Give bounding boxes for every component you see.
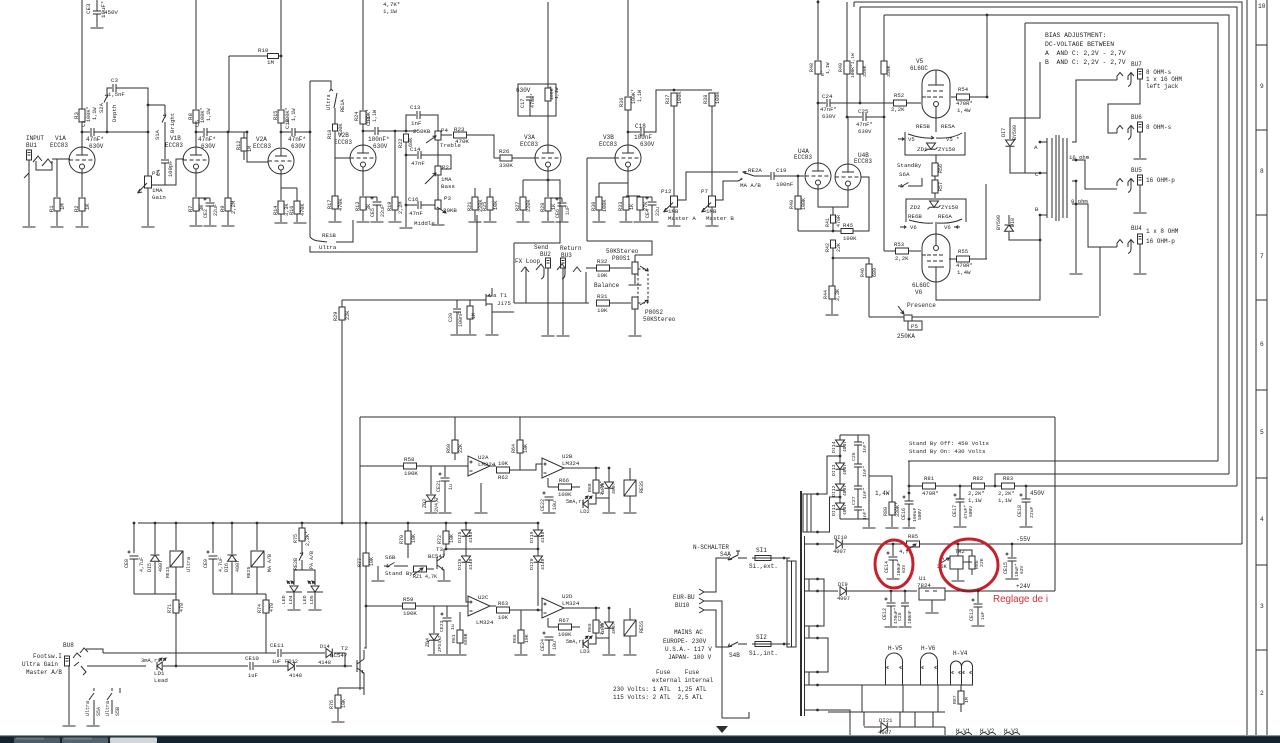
wire C11 out	[378, 130, 417, 132]
wire	[589, 492, 596, 504]
wire C18 up to masters	[644, 90, 674, 132]
wire	[406, 204, 417, 206]
resistor R66	[559, 484, 572, 490]
capacitor C25	[863, 113, 866, 121]
svg-text:330K: 330K	[862, 65, 868, 77]
wire	[959, 502, 961, 526]
wire R23 to R26	[467, 135, 494, 158]
junction	[154, 522, 157, 525]
svg-text:680R: 680R	[463, 633, 469, 645]
wire	[628, 131, 640, 133]
ground	[706, 225, 719, 227]
svg-text:1,1W: 1,1W	[998, 497, 1012, 504]
svg-text:SI1: SI1	[756, 547, 767, 554]
svg-text:ZY150: ZY150	[938, 146, 956, 153]
svg-text:1nF*: 1nF*	[862, 441, 868, 453]
wire	[96, 0, 98, 11]
wire	[859, 74, 861, 103]
svg-text:4148: 4148	[318, 660, 331, 666]
svg-text:1,4W: 1,4W	[957, 107, 971, 114]
resistor R71	[173, 600, 179, 613]
wire	[585, 272, 587, 303]
svg-text:V5 *: V5 *	[946, 136, 959, 143]
potentiometer P3 middle	[435, 200, 441, 209]
svg-text:100K: 100K	[404, 470, 418, 477]
svg-text:R83: R83	[1003, 475, 1013, 482]
capacitor CE4	[646, 197, 657, 206]
svg-text:47nF*: 47nF*	[820, 106, 837, 113]
wire jack sleeve	[24, 160, 29, 178]
svg-text:R41: R41	[825, 218, 831, 227]
svg-text:R31: R31	[597, 293, 608, 300]
svg-text:630V: 630V	[89, 143, 104, 150]
ground	[624, 654, 637, 656]
resistor R3	[79, 109, 85, 122]
resistor R16	[294, 201, 300, 214]
wire	[1075, 218, 1077, 273]
resistor R57	[932, 180, 938, 193]
ground	[926, 612, 939, 614]
ground	[357, 221, 370, 223]
wire	[904, 606, 906, 626]
wire	[890, 591, 892, 602]
wire	[860, 6, 866, 8]
svg-text:Send: Send	[534, 244, 549, 251]
svg-text:470R*: 470R*	[956, 100, 973, 107]
power tube V6 6L6GC	[922, 234, 950, 282]
junction	[341, 522, 344, 525]
ground	[475, 512, 488, 514]
wire	[627, 110, 629, 145]
svg-text:CE3: CE3	[85, 3, 92, 14]
capacitor CE3	[93, 11, 101, 14]
capacitor C3	[113, 84, 116, 92]
transistor T3 BC547	[437, 556, 444, 570]
svg-text:Ultra: Ultra	[326, 94, 332, 110]
svg-text:R66: R66	[559, 477, 569, 484]
resistor R63	[497, 607, 510, 613]
wire	[892, 560, 894, 578]
capacitor CE18	[1020, 494, 1031, 503]
wire	[405, 205, 407, 227]
wire	[513, 243, 515, 303]
svg-text:1,1W: 1,1W	[291, 108, 297, 121]
op-amp U2D LM324	[542, 598, 564, 618]
wire	[213, 593, 266, 595]
wire	[957, 544, 959, 556]
svg-text:C29: C29	[897, 612, 903, 621]
wire	[945, 590, 1055, 592]
ground	[1020, 526, 1033, 528]
wire V5 cathode	[935, 118, 937, 132]
wire	[514, 302, 586, 304]
junction	[908, 518, 911, 521]
heater H-V1 coil	[956, 733, 972, 737]
wire	[466, 563, 471, 602]
svg-text:100K: 100K	[602, 199, 608, 212]
wire	[798, 230, 841, 232]
wire	[857, 435, 859, 442]
svg-text:C10: C10	[284, 118, 291, 129]
wire	[832, 248, 834, 258]
wire	[489, 210, 491, 221]
capacitor CE22	[543, 492, 554, 501]
capacitor C18	[641, 128, 644, 136]
svg-text:1nF*: 1nF*	[862, 465, 868, 477]
svg-text:63V: 63V	[1019, 565, 1025, 574]
transformer primary winding	[787, 561, 796, 647]
junction	[405, 204, 408, 207]
resistor R81	[923, 483, 936, 489]
svg-text:C27: C27	[851, 496, 857, 505]
svg-text:RE25: RE25	[246, 566, 252, 578]
capacitor CE11	[278, 649, 281, 657]
svg-text:630V: 630V	[291, 143, 306, 150]
capacitor CE15	[1006, 553, 1017, 562]
wire	[406, 154, 417, 156]
wire	[970, 258, 987, 260]
resistor R12	[241, 138, 247, 151]
wire	[547, 84, 549, 88]
transformer tap	[816, 590, 819, 593]
wire	[866, 116, 884, 118]
junction	[977, 590, 980, 593]
svg-text:R58: R58	[404, 456, 415, 463]
wire	[209, 198, 211, 202]
wire	[548, 197, 562, 199]
wire	[869, 316, 904, 318]
resistor R74	[263, 600, 269, 613]
wire P12 wiper	[677, 172, 738, 200]
wire	[537, 523, 539, 530]
capacitor C26	[854, 464, 862, 467]
resistor R34	[637, 197, 643, 210]
junction	[362, 130, 365, 133]
wire cathode V1B	[195, 169, 197, 197]
wire	[861, 685, 863, 712]
red circle 1	[875, 540, 913, 588]
svg-text:Lead: Lead	[154, 677, 168, 684]
capacitor C16	[418, 201, 421, 209]
wire	[295, 131, 310, 133]
svg-text:22K: 22K	[345, 310, 351, 320]
junction	[1075, 203, 1078, 206]
wire	[610, 302, 631, 304]
svg-text:2,2K*: 2,2K*	[305, 531, 311, 546]
svg-text:100nF: 100nF	[907, 610, 913, 624]
svg-text:MA A/B: MA A/B	[740, 182, 761, 189]
wire R9	[227, 132, 229, 198]
svg-text:V1A: V1A	[55, 135, 66, 142]
jack switch contact BU1	[33, 156, 52, 166]
svg-text:DI11: DI11	[831, 504, 837, 516]
wire	[572, 486, 580, 488]
svg-text:470K: 470K	[300, 203, 306, 216]
wire P4 to P2	[437, 140, 439, 166]
wire	[564, 607, 600, 609]
wire	[547, 211, 549, 221]
svg-text:C20: C20	[448, 313, 454, 322]
junction	[608, 467, 611, 470]
ground	[275, 222, 288, 224]
triode V1B ECC83	[183, 147, 209, 173]
svg-text:C26: C26	[851, 452, 857, 461]
wire anode to C1	[82, 131, 90, 133]
wire	[857, 445, 859, 464]
svg-text:LD4: LD4	[288, 595, 294, 604]
ground	[190, 225, 203, 227]
wire	[818, 102, 826, 104]
resistor R48	[815, 61, 821, 74]
resistor R69	[593, 620, 599, 633]
box right	[1054, 417, 1056, 591]
wire	[1072, 181, 1076, 218]
svg-text:4007: 4007	[842, 464, 848, 475]
wire	[839, 470, 841, 484]
svg-text:R56: R56	[938, 164, 944, 173]
svg-text:1 x 8 OHM: 1 x 8 OHM	[1146, 228, 1179, 235]
svg-text:RE5B: RE5B	[916, 123, 930, 130]
wire	[195, 211, 197, 225]
svg-text:LD5: LD5	[309, 595, 315, 604]
svg-text:R15: R15	[273, 111, 279, 120]
wire	[87, 665, 146, 667]
svg-text:220K: 220K	[526, 199, 532, 212]
svg-text:630V: 630V	[516, 87, 531, 94]
svg-text:U2B: U2B	[562, 453, 573, 460]
svg-text:BU4: BU4	[1131, 225, 1142, 232]
wire	[421, 155, 451, 169]
wire V6 anode riser	[985, 184, 987, 259]
triode V1A ECC83	[69, 147, 95, 173]
wire left heater drop	[849, 712, 851, 743]
wire	[971, 569, 973, 575]
resistor R54	[957, 94, 970, 100]
svg-text:5mA,r1: 5mA,r1	[566, 499, 585, 505]
wire	[459, 612, 461, 630]
wire	[444, 481, 446, 512]
junction	[537, 548, 540, 551]
svg-text:A AND C: 2,2V - 2,7V: A AND C: 2,2V - 2,7V	[1045, 50, 1126, 57]
wire	[229, 55, 268, 57]
resistor R87	[958, 691, 964, 704]
svg-text:DI14: DI14	[831, 441, 837, 453]
wire	[587, 241, 652, 255]
wire	[704, 610, 728, 647]
wire secondary link a	[818, 579, 825, 626]
junction	[908, 492, 911, 495]
ground	[91, 27, 104, 29]
diode DI8	[1005, 225, 1014, 231]
wire	[907, 102, 921, 104]
svg-text:P12: P12	[661, 188, 672, 195]
diode DI18	[605, 622, 614, 628]
wire	[334, 209, 336, 221]
svg-text:470R*: 470R*	[922, 490, 939, 497]
svg-text:V3A: V3A	[524, 134, 535, 141]
ground	[624, 512, 637, 514]
svg-text:Ultra: Ultra	[319, 244, 337, 251]
svg-text:V5: V5	[908, 136, 915, 143]
junction	[1025, 485, 1028, 488]
svg-text:Fuse Fuse: Fuse Fuse	[656, 669, 700, 676]
potentiometer P5	[904, 315, 912, 321]
wire	[427, 568, 434, 570]
svg-text:V6: V6	[915, 289, 923, 296]
svg-text:MA A/B: MA A/B	[267, 554, 273, 572]
svg-text:100K: 100K	[843, 235, 857, 242]
taskbar	[0, 736, 1280, 743]
svg-text:R24: R24	[354, 112, 360, 121]
svg-text:470R: 470R	[836, 215, 842, 227]
transformer core	[800, 491, 802, 716]
wire	[154, 562, 156, 594]
wire	[818, 543, 835, 545]
svg-text:2,2M: 2,2M	[398, 202, 404, 214]
svg-text:R61: R61	[451, 634, 457, 643]
wire	[586, 267, 597, 269]
junction	[344, 665, 347, 668]
svg-text:ECC83: ECC83	[599, 141, 617, 148]
node A	[1039, 141, 1042, 144]
svg-text:4007: 4007	[235, 560, 241, 572]
zener ZD1	[925, 143, 938, 151]
svg-text:R65: R65	[512, 634, 518, 643]
svg-text:R68: R68	[587, 483, 593, 492]
ground	[634, 221, 647, 223]
svg-text:1uF: 1uF	[272, 659, 281, 665]
diode DI16	[605, 482, 614, 488]
ground	[629, 335, 642, 337]
svg-text:1M: 1M	[247, 146, 253, 152]
wire	[407, 544, 409, 558]
wire bias rail -55V	[854, 2, 1242, 544]
ground	[903, 527, 916, 529]
resistor R27	[520, 197, 526, 210]
wire	[490, 465, 496, 467]
wire cathode V2A	[280, 170, 282, 200]
svg-text:R13: R13	[355, 202, 361, 211]
wire	[857, 467, 859, 486]
relay contact RE1B	[310, 237, 327, 242]
wire	[519, 453, 521, 470]
wire	[608, 489, 610, 498]
ground	[454, 654, 467, 656]
wire	[107, 88, 112, 92]
switch S5A	[89, 688, 94, 725]
svg-text:470K: 470K	[455, 138, 469, 145]
svg-text:8 OHM-s: 8 OHM-s	[1146, 69, 1172, 76]
svg-text:RE1B: RE1B	[322, 232, 336, 239]
wire	[254, 665, 288, 667]
svg-text:RE2A: RE2A	[748, 167, 762, 174]
svg-text:330K: 330K	[886, 65, 892, 77]
svg-text:LD1: LD1	[154, 670, 165, 677]
svg-text:Bass: Bass	[441, 183, 455, 190]
wire	[469, 319, 471, 334]
svg-text:ECC83: ECC83	[854, 158, 872, 165]
svg-text:10K: 10K	[597, 307, 608, 314]
relay RE3 coil	[624, 480, 636, 496]
svg-text:Ultra: Ultra	[85, 701, 91, 716]
svg-text:EUR-BU: EUR-BU	[673, 594, 695, 601]
wire	[839, 435, 841, 440]
svg-text:BIAS ADJUSTMENT:: BIAS ADJUSTMENT:	[1045, 32, 1106, 39]
wire	[651, 205, 653, 221]
wire	[456, 312, 458, 334]
relay box RE6	[906, 199, 966, 222]
svg-text:R21: R21	[467, 202, 473, 211]
svg-text:Return: Return	[560, 245, 582, 252]
jack contact BU4	[1117, 240, 1134, 254]
ground	[329, 221, 342, 223]
triode V3B ECC83	[615, 145, 641, 171]
svg-text:8 OHM-s: 8 OHM-s	[1146, 124, 1172, 131]
heater H-V2 coil	[980, 733, 996, 737]
svg-text:1,1W: 1,1W	[968, 497, 982, 504]
resistor R72	[443, 531, 449, 544]
wire	[818, 590, 839, 592]
wire	[883, 15, 885, 61]
svg-text:6: 6	[1260, 341, 1264, 348]
ground	[899, 626, 912, 628]
ground	[309, 609, 322, 611]
jack BU5	[1138, 175, 1143, 185]
diode DI10	[836, 540, 842, 549]
supply box V3A	[518, 84, 556, 116]
ground	[593, 221, 606, 223]
svg-text:R12: R12	[236, 141, 242, 150]
wire	[212, 523, 214, 553]
svg-text:C1: C1	[80, 120, 87, 127]
svg-text:DI16: DI16	[600, 482, 606, 494]
ground	[1070, 273, 1083, 275]
svg-text:P7: P7	[701, 188, 708, 195]
wire	[195, 123, 197, 147]
wire	[281, 131, 291, 133]
wire	[529, 100, 531, 116]
svg-text:470R*: 470R*	[956, 262, 973, 269]
svg-text:1nF*: 1nF*	[862, 508, 868, 520]
wire	[868, 435, 870, 527]
red circle 2	[940, 539, 998, 591]
svg-text:100nF: 100nF	[458, 312, 464, 327]
wire	[430, 466, 432, 494]
wire	[1009, 232, 1040, 240]
jack BU2	[546, 258, 551, 268]
ground	[288, 609, 301, 611]
wire	[547, 101, 549, 145]
wire ultra common	[309, 81, 311, 237]
wire primary top	[771, 558, 787, 561]
svg-text:ECC83: ECC83	[253, 143, 271, 150]
wire	[949, 258, 956, 260]
wire	[265, 613, 267, 653]
wire	[932, 712, 934, 727]
svg-text:BU5: BU5	[1131, 167, 1142, 174]
svg-text:N-SCHALTER: N-SCHALTER	[693, 544, 729, 551]
svg-text:4,7uF: 4,7uF	[139, 557, 145, 572]
svg-text:DI5: DI5	[147, 563, 153, 572]
svg-text:DI8: DI8	[1010, 218, 1016, 227]
zener ZD2	[928, 201, 941, 209]
wire	[839, 447, 841, 463]
svg-text:250KB: 250KB	[413, 128, 431, 135]
wire	[494, 157, 500, 159]
junction	[859, 102, 862, 105]
junction	[175, 665, 178, 668]
ground	[886, 527, 899, 529]
